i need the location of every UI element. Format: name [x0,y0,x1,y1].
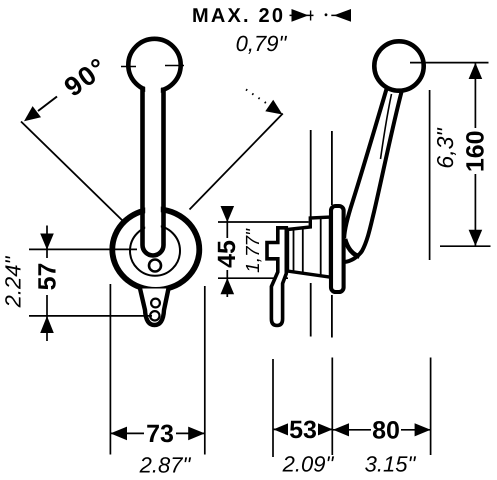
dim 80 text bg [371,420,401,440]
handle highlight line [381,94,392,159]
tab hole lower [150,311,159,320]
body rib line 2 [302,229,304,273]
dim 160 top extension line [410,62,489,64]
svg-text:0,79": 0,79" [236,31,288,56]
svg-text:2.24": 2.24" [1,256,26,309]
dim 80 right extension line [430,358,432,456]
front view lever shaft (white body) [141,86,165,248]
side view bracket and down arm [267,228,286,326]
svg-text:45: 45 [213,240,241,268]
handle fillet arc [345,239,360,257]
side view mounting flange [331,206,344,292]
ball center tick left [121,66,136,68]
90-degree leader arrowhead right [265,100,282,115]
front view: 90-degree swing line left [21,122,125,223]
90-degree label leader line left [38,97,57,112]
side view handle fill [344,89,402,262]
dim 73 left extension line [109,284,111,455]
dim 45 top arrow [221,206,235,222]
dim 53 right arrow [317,423,333,436]
dim 57 bottom arrow [40,316,54,333]
hole below shaft tip [149,260,161,272]
dim 45 text bg [218,238,237,270]
90-degree leader arrowhead left [24,106,41,121]
panel line right [331,131,333,205]
dim 160 text bg [465,128,485,174]
max20 mid dot [325,13,328,16]
90-degree dotted leader right [246,90,266,104]
dim 73 left arrow [110,427,127,441]
front view base inner circle [130,226,180,276]
max20 right-pointing arrow [292,9,309,22]
svg-text:1,77": 1,77" [243,228,264,273]
front view: 90-degree swing line right [190,114,283,210]
handle outer edge [344,90,402,262]
dim 57 text bg [37,258,57,295]
dim 160 vertical line [474,63,476,247]
body rib line 1 [293,230,295,272]
dim 57 top extension line [29,248,137,250]
dim 57 top arrow [40,234,54,250]
dim 80 left arrow [333,423,349,436]
dim 160 bottom extension line [440,245,491,247]
svg-text:2.87": 2.87" [139,453,192,478]
tab hole upper [151,299,160,308]
svg-text:160: 160 [461,130,489,172]
dim 53 line [273,428,332,430]
dim 80 right arrow [415,423,431,436]
dim 53/80 shared extension line [331,358,333,456]
dim 73 text bg [144,423,176,444]
dim 45 bottom extension line [218,277,288,279]
svg-text:6,3": 6,3" [432,127,458,169]
handle inner edge [344,89,386,238]
side view body [288,217,331,277]
lever shaft rounded tip [143,245,164,256]
dim 57 vertical line [46,226,48,342]
svg-text:53: 53 [289,416,317,444]
bottom tab [140,289,169,326]
dim 57 bottom extension line [29,315,152,317]
ball reference line [429,90,431,260]
svg-text:80: 80 [372,417,400,445]
svg-text:3.15": 3.15" [365,452,417,477]
front view ball knob [128,39,180,91]
dim 45 bottom arrow [221,278,235,294]
dim 53 left extension line [272,359,274,457]
side view ball knob [374,41,423,90]
dim 160 bottom arrow [469,230,483,246]
dim 160 top arrow [469,63,483,79]
dim 80 line [332,429,430,431]
panel line left [310,130,312,222]
dim 45 top extension line [218,221,309,223]
svg-text:MAX. 20: MAX. 20 [192,5,285,27]
max20 left-pointing arrow [334,9,351,22]
dim 73 line [110,432,204,434]
dim 73 right arrow [188,427,205,441]
body rib line 3 [320,219,322,276]
ball center tick right [165,65,184,67]
svg-text:57: 57 [33,263,61,291]
dim 53 text bg [288,420,318,439]
dim 73 right extension line [204,286,206,455]
front view lever shaft outline [145,85,161,247]
front view base outer circle [112,209,199,290]
svg-text:2.09": 2.09" [282,452,335,477]
svg-text:73: 73 [146,420,174,448]
dim 53 left arrow [273,423,289,436]
dim 45 vertical line [226,206,228,297]
